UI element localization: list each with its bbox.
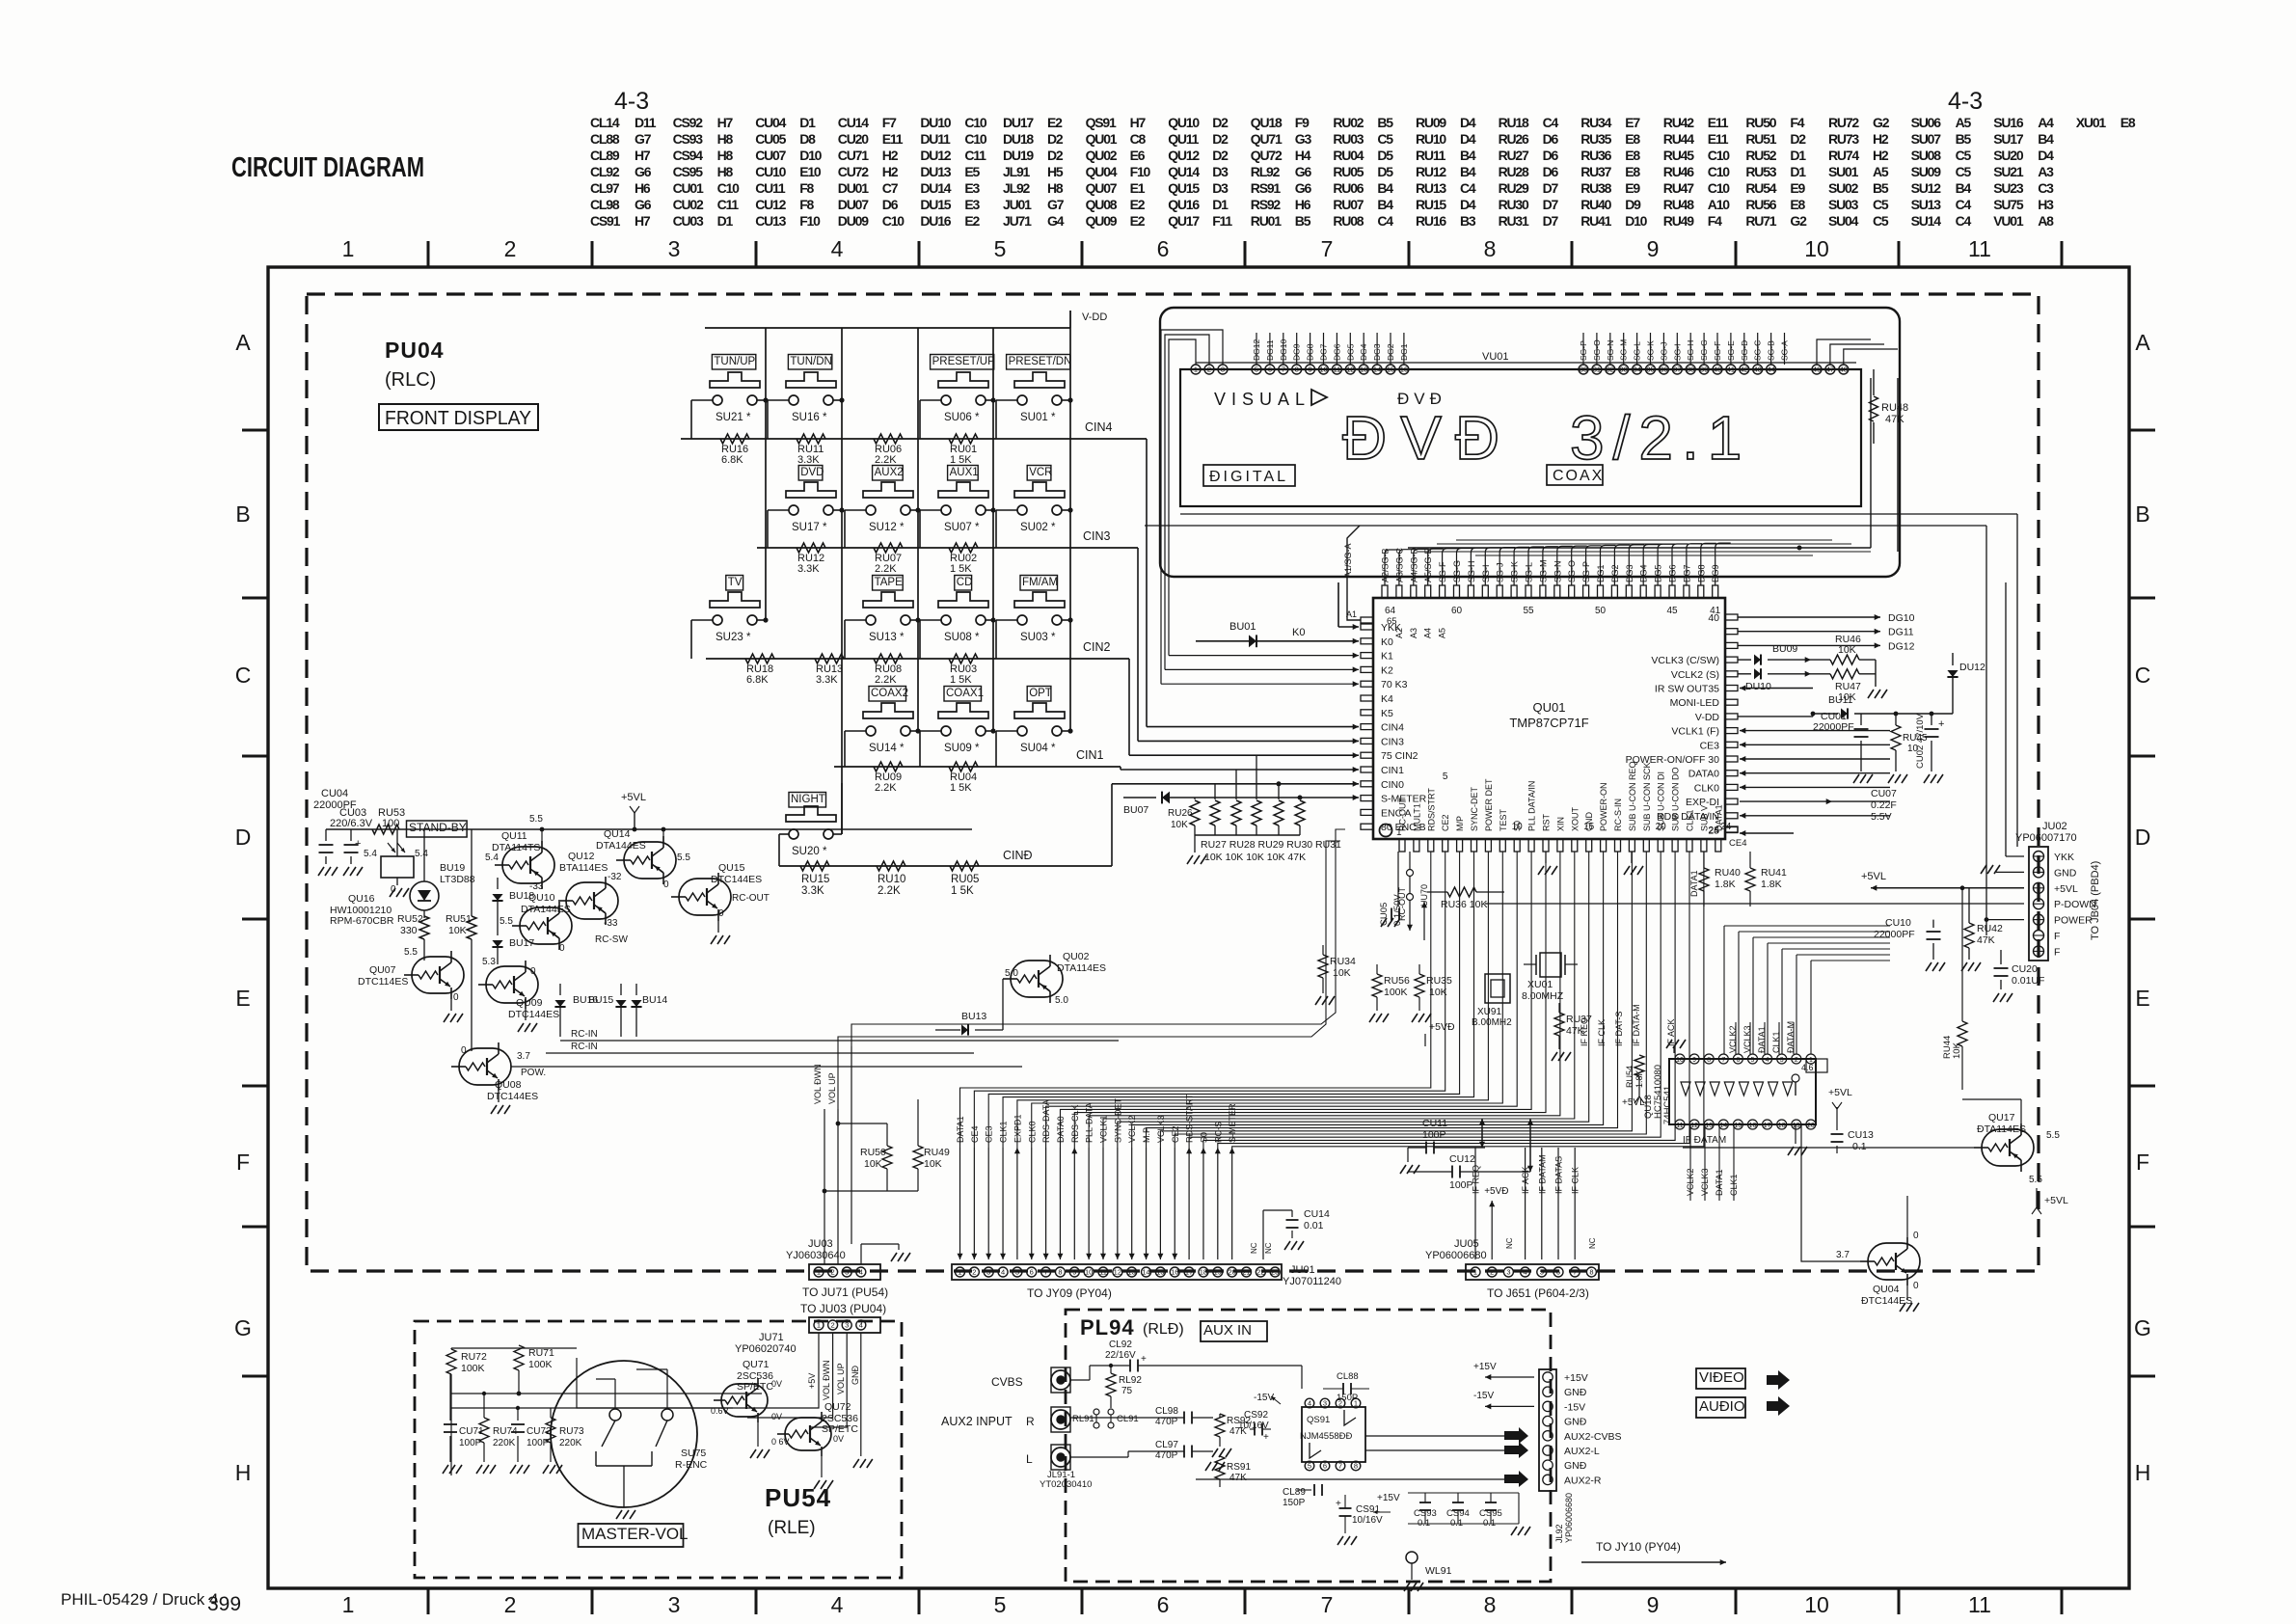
row tick left: [242, 1226, 268, 1229]
svg-text:XU01: XU01: [2076, 115, 2107, 130]
svg-text:+: +: [355, 838, 361, 850]
wire CIN2 to IC: [1128, 659, 1130, 755]
LED BU19 LT3D88: [410, 881, 439, 910]
svg-text:0V: 0V: [833, 1434, 844, 1444]
svg-text:DTC144ES: DTC144ES: [711, 874, 762, 885]
svg-text:E2: E2: [1130, 213, 1146, 229]
component location table: [590, 115, 2136, 229]
capacitor CU12 100P: [1451, 1166, 1453, 1178]
svg-text:DU10: DU10: [920, 115, 951, 130]
svg-text:12: 12: [1690, 1123, 1698, 1129]
svg-text:10: 10: [1512, 822, 1524, 832]
column tick top: [1735, 241, 1738, 267]
svg-text:E10: E10: [799, 164, 822, 179]
svg-text:H7: H7: [1130, 115, 1147, 130]
svg-text:20: 20: [1807, 1123, 1815, 1129]
svg-text:4: 4: [859, 1321, 863, 1330]
svg-text:RU05: RU05: [951, 874, 979, 885]
column tick top: [755, 241, 758, 267]
transistor QU15 DTC144ES: [679, 879, 731, 915]
svg-text:H6: H6: [635, 180, 651, 196]
column tick top: [427, 241, 430, 267]
svg-text:H7: H7: [635, 213, 651, 229]
svg-text:RU12: RU12: [1416, 164, 1446, 179]
svg-text:C11: C11: [717, 197, 740, 212]
connector JL92 body: [1539, 1369, 1556, 1491]
svg-text:DTA114TS: DTA114TS: [492, 842, 540, 853]
svg-text:CU07: CU07: [1871, 788, 1897, 799]
svg-text:0: 0: [461, 1045, 467, 1056]
svg-text:RU15: RU15: [1416, 197, 1446, 212]
ground RU45: [1888, 774, 1894, 783]
svg-text:V-DD: V-DD: [1082, 311, 1107, 323]
svg-text:F7: F7: [882, 115, 897, 130]
pushbutton SU04 (OPT): [1027, 687, 1051, 702]
wire JU71 pin3: [810, 1333, 847, 1427]
svg-text:3: 3: [986, 1268, 990, 1277]
svg-text:PHIL-05429 / Druck 4: PHIL-05429 / Druck 4: [61, 1590, 218, 1609]
svg-text:RU03: RU03: [1333, 131, 1364, 147]
svg-text:D1: D1: [1212, 197, 1229, 212]
wire -15V arrow: [1485, 1405, 1534, 1407]
svg-text:RC-S-IN: RC-S-IN: [1613, 798, 1623, 831]
ground IC TEST pin: [1545, 852, 1547, 863]
svg-text:5.3: 5.3: [482, 957, 496, 967]
svg-text:B3: B3: [1460, 213, 1476, 229]
svg-text:COAX1: COAX1: [946, 688, 984, 699]
svg-text:RC-IN: RC-IN: [571, 1029, 598, 1040]
svg-text:C10: C10: [964, 131, 986, 147]
svg-text:CD: CD: [957, 577, 973, 588]
svg-text:F: F: [2054, 931, 2060, 942]
wire CE4: [1740, 832, 1794, 834]
svg-text:22: 22: [1256, 1268, 1264, 1277]
svg-text:A4/SG-D: A4/SG-D: [1409, 547, 1418, 582]
resistor RU44 10K: [1958, 1021, 1967, 1046]
svg-text:G: G: [2134, 1315, 2151, 1340]
svg-text:40: 40: [1708, 612, 1719, 624]
svg-text:G6: G6: [1295, 164, 1312, 179]
svg-text:CE3: CE3: [1700, 740, 1720, 751]
svg-text:SU03 *: SU03 *: [1020, 632, 1056, 643]
svg-text:1: 1: [817, 1321, 821, 1330]
svg-text:IF REQ: IF REQ: [1580, 1017, 1589, 1046]
svg-text:0: 0: [663, 880, 669, 890]
svg-text:4: 4: [859, 1268, 863, 1277]
IC QU01 pin1 mark: [1380, 825, 1392, 837]
svg-text:JL92: JL92: [1554, 1524, 1564, 1543]
column tick bottom: [1408, 1588, 1411, 1614]
svg-text:8: 8: [1589, 1268, 1593, 1277]
svg-text:RC-OUT: RC-OUT: [1397, 887, 1407, 921]
capacitor CU72 100P: [517, 1408, 519, 1421]
wire POW line: [511, 1066, 1022, 1068]
wire double arrows mid: [1481, 1119, 1483, 1148]
wire PU54 mid rail: [451, 1393, 762, 1394]
wire to IC right pin: [1740, 772, 1832, 774]
column tick top: [1571, 241, 1574, 267]
svg-text:TO J651 (P604-2/3): TO J651 (P604-2/3): [1487, 1286, 1589, 1300]
pushbutton SU20 (NIGHT): [789, 793, 826, 808]
svg-text:1.8K: 1.8K: [1715, 879, 1736, 890]
svg-text:IF DATA-M: IF DATA-M: [1632, 1004, 1641, 1046]
svg-text:GNĐ: GNĐ: [1564, 1417, 1587, 1428]
row tick right: [2129, 1085, 2155, 1088]
column tick bottom: [1735, 1588, 1738, 1614]
transistor QU02 DTA114ES: [1011, 961, 1063, 997]
wire CS9x rail: [1408, 1492, 1519, 1494]
svg-text:2: 2: [504, 1592, 517, 1617]
svg-text:SG-D: SG-D: [1740, 340, 1749, 361]
svg-text:RU09: RU09: [1416, 115, 1446, 130]
wire opamp out L: [1369, 1449, 1504, 1451]
resistor RU30 10K: [1278, 784, 1280, 799]
svg-text:DU13: DU13: [920, 164, 951, 179]
svg-text:H8: H8: [717, 164, 734, 179]
svg-text:DG7: DG7: [1682, 564, 1691, 582]
svg-text:PRESET/UP: PRESET/UP: [932, 356, 996, 367]
svg-text:QU04: QU04: [1873, 1284, 1900, 1295]
svg-text:VCLK2 (S): VCLK2 (S): [1671, 669, 1719, 681]
wire IR SW OUT: [1740, 688, 1813, 690]
resistor RU45 10: [1891, 725, 1901, 750]
svg-text:42: 42: [1741, 365, 1748, 374]
transistor QU17 DTA114ES: [1982, 1129, 2034, 1166]
svg-text:6: 6: [1556, 1268, 1560, 1277]
svg-text:RU07: RU07: [1333, 197, 1364, 212]
svg-text:TO JY09 (PY04): TO JY09 (PY04): [1027, 1286, 1112, 1300]
svg-text:SG-P: SG-P: [1579, 340, 1588, 361]
svg-text:45: 45: [1666, 606, 1678, 616]
svg-text:D1: D1: [1790, 164, 1806, 179]
svg-text:5.5: 5.5: [2046, 1130, 2060, 1141]
svg-text:RU46: RU46: [1663, 164, 1694, 179]
svg-text:RU40: RU40: [1715, 867, 1741, 879]
svg-text:+5VL: +5VL: [621, 792, 646, 803]
svg-text:2.2K: 2.2K: [875, 782, 897, 794]
svg-text:F: F: [2136, 1150, 2149, 1175]
svg-text:CU13: CU13: [755, 213, 786, 229]
column tick top: [2061, 241, 2064, 267]
svg-text:75: 75: [1121, 1386, 1133, 1396]
svg-text:7: 7: [1044, 1268, 1048, 1277]
svg-text:RU13: RU13: [1416, 180, 1446, 196]
svg-text:SU20 *: SU20 *: [792, 846, 827, 857]
svg-text:QU16: QU16: [1168, 197, 1200, 212]
IC XU91 B.00MH2: [1485, 974, 1510, 1003]
svg-text:470P: 470P: [1155, 1417, 1178, 1427]
svg-text:0: 0: [1913, 1281, 1919, 1291]
svg-text:0: 0: [453, 992, 459, 1003]
svg-text:1: 1: [342, 1592, 355, 1617]
svg-text:16: 16: [1171, 1268, 1178, 1277]
resistor RU34 10K: [1318, 955, 1328, 978]
svg-text:C5: C5: [1956, 148, 1972, 163]
svg-text:QS91: QS91: [1086, 115, 1117, 130]
svg-text:F4: F4: [1708, 213, 1722, 229]
svg-text:G4: G4: [1047, 213, 1065, 229]
svg-text:CL92: CL92: [590, 164, 620, 179]
svg-text:DU15: DU15: [920, 197, 951, 212]
svg-text:40: 40: [1714, 365, 1721, 374]
svg-text:23: 23: [1271, 1268, 1279, 1277]
svg-text:47: 47: [1826, 365, 1834, 374]
svg-text:DG10: DG10: [1888, 612, 1915, 624]
svg-text:G: G: [234, 1315, 252, 1340]
svg-text:TV: TV: [728, 577, 743, 588]
svg-text:+15V: +15V: [1377, 1493, 1400, 1503]
svg-text:YKK: YKK: [1381, 622, 1401, 634]
resistor RU48 47K: [1873, 369, 1875, 395]
svg-text:RPM-670CBR: RPM-670CBR: [330, 915, 394, 927]
svg-text:5.4: 5.4: [364, 849, 377, 859]
svg-text:A1/SG-A: A1/SG-A: [1343, 543, 1353, 578]
IC QU18 pins and gates: [1675, 1054, 1685, 1064]
svg-text:A2/SG-B: A2/SG-B: [1381, 548, 1391, 582]
svg-text:A5/SG-E: A5/SG-E: [1423, 548, 1433, 582]
svg-text:BU17: BU17: [509, 937, 534, 949]
svg-text:D6: D6: [1543, 164, 1559, 179]
block label FRONT DISPLAY: [379, 404, 538, 430]
svg-text:QU72: QU72: [824, 1401, 851, 1413]
svg-text:2: 2: [1795, 1057, 1798, 1064]
svg-text:9: 9: [1309, 365, 1312, 374]
svg-text:CS95: CS95: [673, 164, 704, 179]
svg-text:TO JY10 (PY04): TO JY10 (PY04): [1596, 1540, 1681, 1554]
svg-text:TUN/UP: TUN/UP: [714, 356, 755, 367]
svg-text:33: 33: [1620, 365, 1628, 374]
svg-text:BU18: BU18: [509, 890, 534, 902]
svg-text:0.1: 0.1: [1852, 1141, 1867, 1152]
svg-text:RC-OUT: RC-OUT: [732, 893, 770, 904]
svg-text:+: +: [1141, 1354, 1147, 1365]
wire DG12: [1738, 644, 1880, 646]
svg-text:3.3K: 3.3K: [797, 563, 820, 575]
svg-text:RU27: RU27: [1499, 148, 1529, 163]
pushbutton SU17 (DVD): [798, 466, 823, 481]
wire L jack to CL97: [1070, 1456, 1128, 1458]
svg-text:BU09: BU09: [1772, 643, 1797, 655]
svg-text:IF ACK: IF ACK: [1521, 1166, 1530, 1194]
svg-text:A10: A10: [1708, 197, 1730, 212]
svg-text:17: 17: [1185, 1268, 1193, 1277]
svg-text:+5VL: +5VL: [2044, 1195, 2068, 1206]
svg-text:POWER-ON/OFF 30: POWER-ON/OFF 30: [1626, 754, 1720, 766]
capacitor CU71 100P: [449, 1374, 451, 1421]
svg-text:1: 1: [817, 1268, 821, 1277]
svg-text:46: 46: [1813, 365, 1821, 374]
svg-text:36: 36: [1660, 365, 1667, 374]
ground CU01: [1853, 774, 1859, 783]
svg-text:QU14: QU14: [1168, 164, 1200, 179]
svg-text:5: 5: [994, 236, 1007, 261]
IC QU01 TMP87CP71F body: [1373, 598, 1725, 839]
svg-text:SU01: SU01: [1828, 164, 1859, 179]
svg-text:G2: G2: [1790, 213, 1807, 229]
svg-text:TUN/DN: TUN/DN: [790, 356, 831, 367]
svg-text:0.6V: 0.6V: [711, 1406, 729, 1416]
svg-text:GNĐ: GNĐ: [1564, 1387, 1587, 1398]
key matrix column bus wire: [765, 328, 767, 620]
svg-text:QU09: QU09: [516, 997, 543, 1009]
svg-text:SU13: SU13: [1911, 197, 1942, 212]
svg-text:1.8K: 1.8K: [1761, 879, 1782, 890]
svg-text:RS92: RS92: [1251, 197, 1282, 212]
svg-text:RU53: RU53: [1745, 164, 1776, 179]
pushbutton SU09 (COAX1): [944, 687, 982, 702]
svg-text:9: 9: [1647, 236, 1660, 261]
svg-text:H: H: [2135, 1460, 2151, 1485]
display module VU01 outline: [1160, 308, 1900, 577]
display glass outline: [1180, 369, 1861, 506]
svg-text:64: 64: [1385, 606, 1396, 616]
svg-text:CU20: CU20: [838, 131, 869, 147]
svg-text:4: 4: [831, 1592, 844, 1617]
svg-text:-32: -32: [608, 872, 622, 882]
svg-text:H7: H7: [635, 148, 651, 163]
row tick left: [242, 1375, 268, 1378]
svg-text:CIN3: CIN3: [1381, 736, 1404, 747]
svg-text:6: 6: [1736, 1057, 1740, 1064]
svg-text:SG-A: SG-A: [1780, 340, 1790, 361]
svg-text:SUB V: SUB V: [1699, 805, 1709, 831]
svg-text:H7: H7: [717, 115, 734, 130]
svg-text:12: 12: [1346, 365, 1354, 374]
wire V-DD pin: [1738, 716, 1813, 717]
svg-text:70 K3: 70 K3: [1381, 679, 1408, 690]
svg-text:D8: D8: [799, 131, 816, 147]
wire right bus 1: [2016, 514, 2018, 847]
svg-text:RU26: RU26: [1499, 131, 1529, 147]
svg-text:RU50: RU50: [860, 1147, 886, 1158]
svg-text:DVD: DVD: [800, 467, 824, 478]
svg-text:B: B: [235, 501, 250, 527]
rotary encoder SU75 R-ENC: [551, 1361, 697, 1507]
svg-text:C7: C7: [882, 180, 899, 196]
svg-text:0: 0: [718, 908, 724, 919]
svg-text:A3: A3: [2038, 164, 2054, 179]
svg-text:QU02: QU02: [1063, 951, 1090, 962]
svg-text:CU13: CU13: [1848, 1129, 1874, 1141]
svg-text:D2: D2: [1790, 131, 1806, 147]
svg-text:D6: D6: [1543, 131, 1559, 147]
svg-text:C4: C4: [1460, 180, 1476, 196]
svg-text:SU02 *: SU02 *: [1020, 522, 1056, 533]
svg-text:AUX IN: AUX IN: [1203, 1322, 1252, 1339]
svg-text:SP/ETC: SP/ETC: [737, 1381, 773, 1393]
svg-text:YP06006680: YP06006680: [1425, 1250, 1487, 1261]
svg-text:SU16 *: SU16 *: [792, 412, 827, 423]
svg-text:CIN3: CIN3: [1083, 529, 1111, 543]
svg-text:SU21: SU21: [1993, 164, 2024, 179]
svg-text:H3: H3: [2038, 197, 2054, 212]
svg-text:NC: NC: [1250, 1242, 1258, 1254]
svg-text:C4: C4: [1956, 213, 1972, 229]
capacitor CU20 0.01UF: [2000, 950, 2002, 964]
svg-text:50: 50: [1595, 606, 1607, 616]
svg-text:QU07: QU07: [369, 964, 396, 976]
svg-text:DTC144ES: DTC144ES: [508, 1009, 559, 1020]
svg-text:6.8K: 6.8K: [746, 674, 769, 686]
svg-text:SG-G: SG-G: [1452, 560, 1462, 582]
svg-text:H6: H6: [1295, 197, 1311, 212]
svg-text:RU36: RU36: [1580, 148, 1611, 163]
svg-text:RU71: RU71: [1745, 213, 1776, 229]
svg-text:JU02: JU02: [2042, 821, 2067, 832]
svg-text:D3: D3: [1212, 164, 1229, 179]
svg-text:4: 4: [1766, 1057, 1769, 1064]
resistor RU07 2.2K: [874, 543, 903, 553]
svg-text:3: 3: [845, 1268, 849, 1277]
column tick bottom: [918, 1588, 921, 1614]
column tick top: [1081, 241, 1084, 267]
svg-text:3: 3: [1506, 1268, 1510, 1277]
svg-text:SU16: SU16: [1993, 115, 2024, 130]
svg-text:H8: H8: [1047, 180, 1064, 196]
svg-text:74HC541: 74HC541: [1662, 1086, 1673, 1124]
svg-text:D2: D2: [1047, 131, 1064, 147]
pushbutton SU06 (PRESET/UP): [931, 355, 994, 370]
svg-text:CL91: CL91: [1117, 1414, 1139, 1424]
svg-text:CL88: CL88: [590, 131, 620, 147]
svg-text:SU04: SU04: [1828, 213, 1859, 229]
svg-text:RU30: RU30: [1499, 197, 1529, 212]
resistor RU04 1 5K: [949, 762, 978, 771]
wire AUX2-R arrow: [1504, 1471, 1528, 1487]
svg-text:SG-M: SG-M: [1538, 560, 1548, 583]
svg-text:10K: 10K: [1838, 644, 1856, 656]
svg-text:CU05: CU05: [755, 131, 786, 147]
svg-text:20: 20: [1656, 822, 1667, 832]
svg-text:QU16: QU16: [348, 893, 375, 905]
svg-text:RU28: RU28: [1499, 164, 1529, 179]
capacitor CU10 22000PF: [1932, 920, 1934, 928]
wire JU71 pin1: [577, 1333, 819, 1408]
svg-text:+5VL: +5VL: [2054, 883, 2078, 895]
svg-text:A: A: [235, 330, 251, 355]
diode BU09: [1738, 659, 1751, 661]
svg-text:RU40: RU40: [1580, 197, 1611, 212]
svg-text:30: 30: [1580, 365, 1587, 374]
ground JU02 GND pin: [1996, 871, 2024, 873]
svg-text:VCR: VCR: [1029, 467, 1052, 478]
svg-text:10K: 10K: [1171, 820, 1188, 830]
svg-text:F11: F11: [1212, 213, 1232, 229]
svg-text:SG-H: SG-H: [1686, 340, 1695, 361]
svg-text:220K: 220K: [559, 1438, 582, 1448]
svg-text:7: 7: [1573, 1268, 1577, 1277]
resistor RU73 220K: [546, 1418, 555, 1443]
RCA jack CVBS: [1051, 1370, 1070, 1390]
svg-text:B4: B4: [1460, 164, 1476, 179]
svg-text:DG2: DG2: [1386, 343, 1395, 361]
wire fan IC to JU01 connector: [960, 852, 1431, 1148]
wire QU04 collector up: [1906, 1196, 1908, 1237]
svg-text:RST: RST: [1542, 813, 1552, 831]
svg-text:QU15: QU15: [718, 862, 745, 874]
svg-text:D2: D2: [1047, 148, 1064, 163]
svg-text:47K: 47K: [1885, 414, 1904, 425]
transistor QU14 DTA144ES: [624, 842, 676, 879]
row tick left: [242, 755, 268, 758]
diode BU16: [559, 984, 561, 995]
svg-text:5.5: 5.5: [529, 814, 543, 825]
svg-text:150P: 150P: [1283, 1498, 1306, 1508]
transistor QU11 DTA114TS: [502, 847, 554, 883]
svg-text:WL91: WL91: [1425, 1565, 1452, 1577]
svg-text:R-ENC: R-ENC: [675, 1459, 708, 1471]
svg-text:220/6.3V: 220/6.3V: [330, 818, 373, 829]
